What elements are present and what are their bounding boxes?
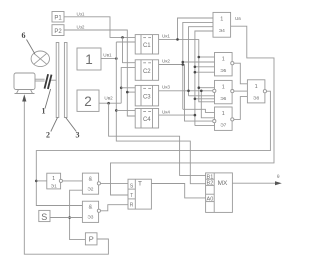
svg-text:Э5: Э5 [220,68,226,74]
svg-text:Э8: Э8 [253,95,259,101]
svg-text:P2: P2 [54,29,62,35]
svg-text:1: 1 [52,176,55,182]
svg-text:R: R [130,203,134,209]
svg-text:Uв1: Uв1 [103,53,112,58]
svg-text:θ: θ [277,174,280,179]
svg-text:Э3: Э3 [87,214,93,220]
svg-text:A0: A0 [207,197,214,203]
svg-text:1: 1 [222,57,225,63]
svg-text:T: T [130,193,133,199]
svg-text:Uк2: Uк2 [162,59,170,64]
svg-text:Э7: Э7 [220,123,226,129]
svg-text:3: 3 [76,131,80,140]
svg-text:Uз1: Uз1 [77,11,85,16]
svg-text:P1: P1 [54,16,62,22]
svg-text:1: 1 [222,111,225,117]
svg-text:1: 1 [255,84,258,90]
svg-text:T: T [138,181,142,188]
svg-text:Э2: Э2 [87,186,93,192]
svg-text:C4: C4 [143,117,151,123]
svg-text:B2: B2 [207,181,214,187]
svg-text:C2: C2 [143,69,151,75]
svg-text:2: 2 [46,131,50,140]
svg-text:Uв2: Uв2 [104,96,113,101]
svg-text:1: 1 [222,84,225,90]
svg-text:Uк3: Uк3 [162,85,170,90]
svg-text:Э6: Э6 [220,96,226,102]
svg-text:C1: C1 [143,43,151,49]
svg-text:C3: C3 [143,94,151,100]
svg-text:Uв: Uв [235,16,241,21]
svg-text:Uк4: Uк4 [162,110,170,115]
svg-text:S: S [41,212,47,222]
svg-text:1: 1 [220,17,223,23]
svg-text:MX: MX [218,180,228,187]
svg-text:&: & [89,176,93,182]
svg-text:Э1: Э1 [51,184,57,190]
svg-text:1: 1 [42,107,46,116]
svg-text:&: & [89,204,93,210]
svg-text:Uк1: Uк1 [162,34,170,39]
svg-text:P: P [89,235,94,244]
svg-text:6: 6 [22,31,26,40]
svg-text:Uз2: Uз2 [77,25,85,30]
svg-text:B1: B1 [207,174,214,180]
svg-text:2: 2 [84,94,92,109]
svg-text:Э4: Э4 [219,28,225,34]
svg-text:1: 1 [85,52,93,67]
svg-text:S: S [130,183,134,189]
